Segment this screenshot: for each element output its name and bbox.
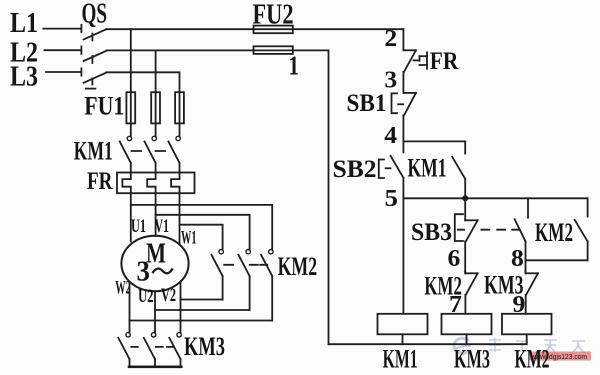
button SB3 linkage dashed line <box>458 229 519 231</box>
watermark logo <box>454 338 471 353</box>
svg-text:KM2: KM2 <box>515 345 550 374</box>
switch QS pole 1 <box>81 25 106 40</box>
contactor KM1 main contacts label <box>74 137 113 166</box>
coil KM1 bottom stub <box>402 334 404 344</box>
star point shorting bar <box>129 365 181 368</box>
wire control bus corner down from L1 <box>402 29 404 50</box>
wire delta feeder 1 to KM2 pole 3 <box>131 205 272 250</box>
svg-text:SB1: SB1 <box>347 90 387 117</box>
svg-text:8: 8 <box>511 246 524 272</box>
switch QS linkage dashed line <box>86 34 95 89</box>
svg-text:KM1: KM1 <box>408 153 447 182</box>
fuse FU1 label <box>84 91 124 120</box>
svg-text:KM1: KM1 <box>383 345 418 374</box>
thermal relay FR element 3 <box>171 173 179 194</box>
fuse FU2-2 body <box>254 46 293 54</box>
wire bottom return bus <box>329 343 527 345</box>
coil KM3 <box>442 314 492 335</box>
contactor KM3 linkage dashes <box>131 346 173 348</box>
svg-text:KM3: KM3 <box>184 332 225 361</box>
svg-text:6: 6 <box>448 246 461 272</box>
start button SB2 NO contact <box>391 141 404 198</box>
junction node 5 dot <box>462 195 468 201</box>
interlock KM2 NC contact <box>465 271 477 314</box>
node 2 label <box>384 26 397 52</box>
contactor KM1 pole 2 contact <box>145 136 157 172</box>
wire column 3 to KM1 <box>179 92 181 136</box>
wire L2 bus QS to FU2 to left return <box>106 49 328 51</box>
stop button SB1 actuator bracket <box>392 93 398 113</box>
thermal relay FR actuator symbol <box>414 52 428 69</box>
svg-text:4: 4 <box>384 123 397 149</box>
button SB3 NO contact <box>515 198 528 260</box>
wire W2 down to KM3 pole 1 <box>129 283 131 333</box>
contactor KM3 star contacts label <box>184 332 225 361</box>
wire node 8 join <box>526 259 588 261</box>
node 1 label <box>289 51 300 81</box>
wire U2 to KM2 pole 2 bottom <box>155 309 250 311</box>
svg-text:5: 5 <box>385 186 399 212</box>
button SB3 NC contact <box>465 198 477 271</box>
coil KM1 label <box>383 345 418 374</box>
svg-text:SB2: SB2 <box>333 156 377 183</box>
thermal relay FR label <box>87 168 113 195</box>
wire FR to motor V1 <box>155 193 157 236</box>
wire L1 bus QS to FU2 to control corner <box>106 28 403 30</box>
node 6 label <box>448 246 461 272</box>
svg-text:KM3: KM3 <box>454 345 490 374</box>
fuse FU2-1 body <box>254 26 293 34</box>
motor M letter <box>146 238 166 269</box>
interlock KM2 label <box>424 271 462 300</box>
terminal W1 label <box>181 228 197 249</box>
contactor KM3 pole 2 contact <box>144 333 156 366</box>
contactor KM1 linkage dashes <box>132 150 174 152</box>
start button SB2 label <box>333 156 377 183</box>
thermal relay FR control label <box>430 48 459 75</box>
svg-text:V2: V2 <box>161 285 176 306</box>
coil KM3 bottom stub <box>466 334 468 344</box>
contactor KM2 pole 3 contact <box>261 250 273 321</box>
coil KM2 label <box>515 345 550 374</box>
node 4 label <box>384 123 397 149</box>
interlock KM3 label <box>484 270 524 299</box>
node 3 label <box>384 67 397 93</box>
fuse FU1-2 body <box>151 92 160 123</box>
svg-text:FU1: FU1 <box>84 91 124 120</box>
wire L3 to QS <box>46 71 81 73</box>
svg-text:FR: FR <box>430 48 459 75</box>
contactor KM1 pole 1 contact <box>120 136 132 172</box>
terminal U2 label <box>138 286 154 307</box>
svg-text:FR: FR <box>87 168 113 195</box>
svg-text:QS: QS <box>82 0 108 30</box>
wire left return line node 1 <box>328 50 330 344</box>
wire FR to motor U1 <box>130 193 132 241</box>
contactor KM2 linkage dashes <box>224 264 267 266</box>
wire node 5 rail <box>403 197 587 199</box>
thermal relay FR element 1 <box>122 173 130 194</box>
wire node 5 to KM1 coil <box>402 198 404 313</box>
contactor KM3 pole 3 contact <box>169 333 181 366</box>
wire column 1 from L1 to KM1 <box>130 29 132 136</box>
node 9 label <box>513 292 526 318</box>
switch QS pole 3 <box>81 68 106 83</box>
switch QS pole 2 <box>81 47 106 62</box>
contactor KM2 aux label <box>535 218 573 247</box>
contactor KM1 pole 3 contact <box>168 136 180 172</box>
node L2 label <box>10 36 38 68</box>
button SB3 label <box>411 219 452 246</box>
fuse FU1-3 body <box>175 92 184 123</box>
contactor KM2 pole 2 contact <box>238 250 250 311</box>
wire W2 to KM2 pole 3 bottom <box>130 320 273 322</box>
wire FR to motor W1 <box>179 193 181 243</box>
svg-text:KM2: KM2 <box>535 218 573 247</box>
svg-text:KM1: KM1 <box>74 137 113 166</box>
stop button SB1 link dash <box>398 103 403 105</box>
terminal U1 label <box>131 216 146 237</box>
start button SB2 link dash <box>386 167 391 169</box>
node L3 label <box>10 60 38 92</box>
fuse FU2 label <box>253 0 294 31</box>
contactor KM3 pole 1 contact <box>118 333 130 366</box>
interlock KM3 NC contact <box>526 271 538 314</box>
wire column 2 from L2 to KM1 <box>155 50 157 136</box>
fuse FU1-1 body <box>126 92 135 123</box>
button SB3 actuator bracket <box>455 214 463 241</box>
motor M body <box>121 236 188 292</box>
wire L3 QS to column 3 corner <box>106 72 179 92</box>
svg-text:U2: U2 <box>138 286 154 307</box>
node 5 label <box>385 186 399 212</box>
wire node 8 down <box>525 260 527 271</box>
motor 3~ label <box>137 257 151 288</box>
wire L1 to QS <box>43 28 81 30</box>
wire node 4 branch to KM1 aux <box>403 140 465 142</box>
node 7 label <box>449 292 462 318</box>
contactor KM2 delta contacts label <box>278 252 318 281</box>
terminal W2 label <box>115 278 131 299</box>
svg-text:L1: L1 <box>10 7 38 39</box>
wire U2 down to KM3 pole 2 <box>154 291 156 332</box>
svg-text:L3: L3 <box>10 60 38 92</box>
svg-text:V1: V1 <box>155 216 169 237</box>
node 8 label <box>511 246 524 272</box>
coil KM2 bottom stub <box>526 334 528 344</box>
terminal V1 label <box>155 216 169 237</box>
svg-text:3: 3 <box>137 257 151 288</box>
wire delta feeder 3 to KM2 pole 1 <box>180 225 223 250</box>
start button SB2 actuator bracket <box>379 160 384 179</box>
thermal relay FR box <box>117 173 195 194</box>
svg-text:KM2: KM2 <box>278 252 318 281</box>
contactor KM2 pole 1 contact <box>211 250 223 300</box>
watermark red tag <box>529 352 591 362</box>
svg-text:SB3: SB3 <box>411 219 452 246</box>
svg-text:1: 1 <box>289 51 300 81</box>
contactor KM1 aux label <box>408 153 447 182</box>
wire delta feeder 2 to KM2 pole 2 <box>156 215 250 250</box>
switch QS label <box>82 0 108 30</box>
stop button SB1 NC contact <box>403 93 416 141</box>
node L1 label <box>10 7 38 39</box>
svg-text:U1: U1 <box>131 216 146 237</box>
coil KM1 <box>378 314 428 335</box>
contactor KM2 auxiliary NO contact <box>575 198 588 260</box>
svg-text:2: 2 <box>384 26 397 52</box>
svg-text:W2: W2 <box>115 278 131 299</box>
coil KM3 label <box>454 345 490 374</box>
thermal relay FR NC contact <box>403 50 416 93</box>
stop button SB1 label <box>347 90 387 117</box>
thermal relay FR element 2 <box>147 173 155 194</box>
wire V2 down to KM3 pole 3 <box>180 283 182 333</box>
wire L2 to QS <box>45 49 81 51</box>
watermark characters <box>489 338 585 354</box>
contactor KM1 auxiliary NO contact <box>452 141 465 198</box>
wire V2 to KM2 pole 1 bottom <box>181 299 223 301</box>
coil KM2 <box>502 314 552 335</box>
svg-text:W1: W1 <box>181 228 197 249</box>
terminal V2 label <box>161 285 176 306</box>
